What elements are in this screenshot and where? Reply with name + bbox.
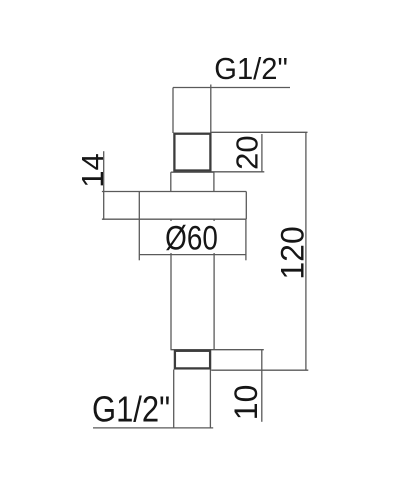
- top thread (thick outline): [174, 134, 210, 171]
- extension line bottom thread left to G1/2 leader: [173, 370, 175, 428]
- leader line bottom G1/2: [93, 427, 213, 429]
- svg-text:Ø60: Ø60: [165, 219, 218, 257]
- svg-text:120: 120: [275, 226, 311, 279]
- neck right edge: [213, 172, 215, 191]
- extension line thread bottom for 20 dim: [212, 171, 265, 173]
- extension line flange left for diameter 60: [138, 219, 140, 260]
- pipe top section left edge: [172, 88, 174, 134]
- pipe top section right edge: [210, 85, 212, 134]
- neck left edge: [170, 172, 172, 191]
- extension line bottom thread right to G1/2 leader: [209, 370, 211, 428]
- extension line flange right for diameter 60: [245, 219, 247, 260]
- pipe left edge below flange: [170, 219, 172, 350]
- pipe right edge below flange: [213, 219, 215, 350]
- bottom thread (thick outline): [175, 351, 210, 369]
- label diameter 60 with white knockout: [163, 221, 220, 253]
- dim line 120: [305, 132, 307, 370]
- dim line 20: [261, 134, 263, 173]
- dim line 14: [103, 151, 105, 220]
- svg-text:G1/2": G1/2": [92, 390, 170, 430]
- dim line diameter 60: [139, 254, 246, 256]
- pipe bottom edge with right extension for 10 dim: [171, 349, 264, 351]
- dim line 10: [261, 350, 263, 422]
- flange bottom edge with left extension for 14 dim: [102, 218, 246, 220]
- svg-text:20: 20: [229, 135, 264, 169]
- leader line top G1/2 (pipe top edge extended): [173, 87, 290, 89]
- flange left edge: [138, 192, 140, 220]
- svg-text:G1/2": G1/2": [214, 52, 288, 86]
- svg-text:14: 14: [75, 153, 110, 187]
- extension line thread top to 120 dim: [212, 131, 308, 133]
- flange top edge with left extension for 14 dim: [102, 191, 246, 193]
- flange right edge: [245, 192, 247, 220]
- neck top edge: [171, 171, 214, 173]
- svg-text:10: 10: [228, 385, 264, 421]
- extension line pipe bottom to 120 dim: [211, 369, 308, 371]
